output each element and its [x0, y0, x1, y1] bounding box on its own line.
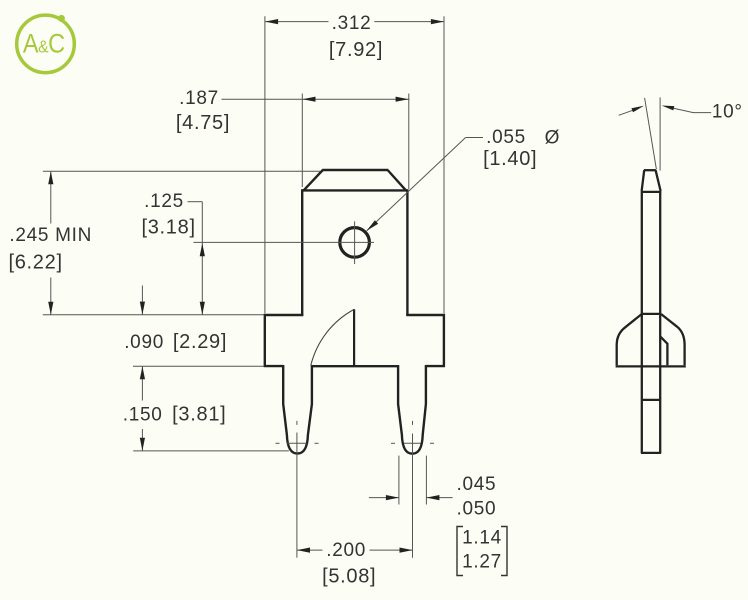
right wing [661, 314, 685, 365]
svg-text:[2.29]: [2.29] [173, 331, 227, 353]
angle leader left [619, 110, 633, 115]
dimension .045 / .050 [369, 456, 453, 505]
dimension .090 [133, 286, 289, 451]
svg-text:.045: .045 [457, 474, 497, 495]
body right edge [406, 189, 408, 315]
hole leader .055 [367, 138, 483, 231]
lance arc (thin) [311, 309, 354, 365]
wing top line [642, 313, 660, 315]
svg-text:1.27: 1.27 [462, 552, 502, 573]
right shoulder [406, 315, 444, 366]
svg-text:.200: .200 [326, 540, 366, 561]
svg-text:.187: .187 [179, 88, 219, 109]
angle extension vertical [659, 97, 661, 170]
right leg [398, 365, 426, 454]
angle slant line [645, 98, 657, 169]
svg-text:10°: 10° [712, 101, 743, 122]
chamfer right slant [388, 170, 406, 190]
hole [340, 228, 370, 258]
chamfer left slant [304, 170, 323, 190]
svg-text:[3.81]: [3.81] [172, 403, 226, 425]
leg bottom [641, 452, 661, 454]
svg-text:.055: .055 [486, 127, 526, 148]
svg-text:A: A [23, 29, 39, 59]
svg-text:.312: .312 [332, 13, 372, 34]
angle leader right [673, 108, 712, 113]
svg-text:[3.18]: [3.18] [141, 216, 195, 238]
svg-text:C: C [48, 29, 65, 59]
dimension .125 [188, 202, 203, 315]
lance bend vertical [353, 309, 355, 365]
FRONT VIEW outline (thick) [265, 170, 444, 454]
svg-text:[5.08]: [5.08] [322, 566, 376, 588]
tab edges [641, 191, 643, 453]
body left edge [301, 189, 303, 315]
svg-text:Ø: Ø [545, 128, 560, 149]
svg-text:[6.22]: [6.22] [8, 252, 62, 274]
tab tip [644, 169, 656, 171]
bracketed 1.14/1.27 [457, 527, 507, 576]
dimension .245 MIN [43, 171, 320, 315]
side view outline [616, 170, 686, 453]
svg-text:.090: .090 [124, 332, 164, 353]
chamfer top edge [322, 169, 388, 171]
svg-text:[4.75]: [4.75] [176, 112, 230, 134]
leg tick [642, 399, 660, 401]
left wing [617, 314, 642, 365]
dimension .312 [265, 16, 444, 313]
left leg [283, 365, 312, 454]
dimension .200 [297, 549, 413, 551]
hole horizontal centerline [193, 241, 374, 243]
svg-text:[7.92]: [7.92] [329, 39, 383, 61]
svg-text:&: & [38, 37, 48, 57]
logo A&C circle [17, 15, 75, 73]
svg-text:.150: .150 [123, 404, 163, 425]
notch [660, 336, 667, 365]
leg centerlines [276, 421, 435, 558]
hole vertical centerline [354, 221, 356, 264]
svg-text:.245 MIN: .245 MIN [9, 225, 92, 246]
svg-text:.050: .050 [457, 498, 497, 519]
wing bottom [616, 365, 686, 367]
chamfer bottom line [302, 189, 407, 191]
dimension .187 [222, 94, 410, 190]
web between legs [312, 365, 398, 367]
svg-text:1.14: 1.14 [462, 528, 502, 549]
svg-text:.125: .125 [144, 191, 184, 212]
svg-text:[1.40]: [1.40] [483, 148, 537, 170]
left shoulder [265, 315, 304, 366]
